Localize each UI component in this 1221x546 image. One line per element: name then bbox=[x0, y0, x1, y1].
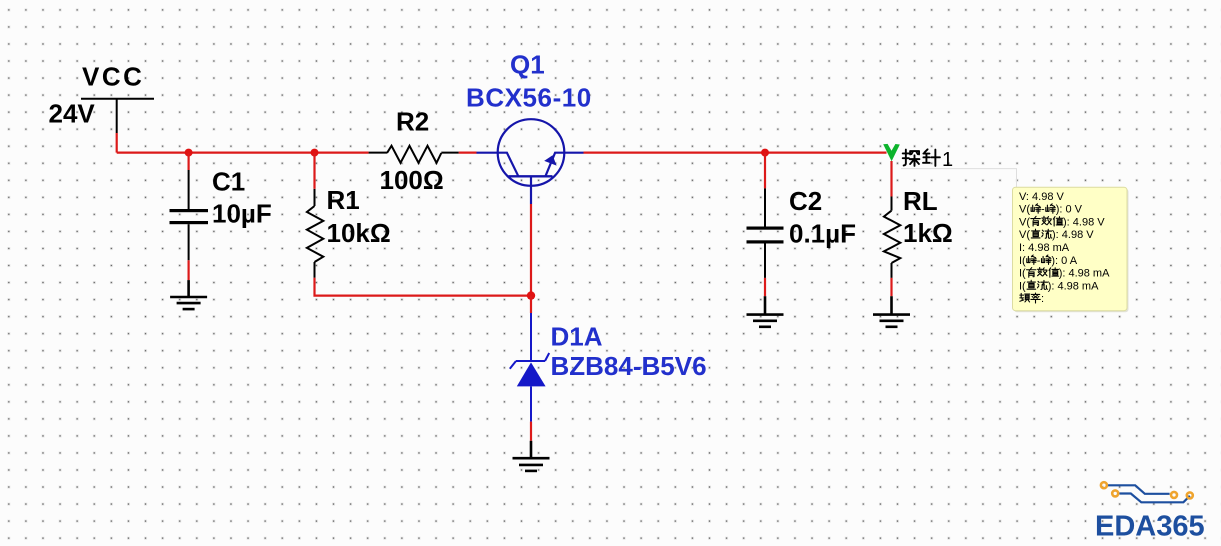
capacitor C2 bbox=[747, 153, 784, 278]
svg-text::: : bbox=[1041, 293, 1044, 305]
zener diode D1A bbox=[510, 313, 549, 422]
svg-text:-: - bbox=[1037, 255, 1041, 267]
svg-text:100Ω: 100Ω bbox=[380, 165, 444, 195]
svg-text:1kΩ: 1kΩ bbox=[903, 218, 953, 248]
transistor Q1 (NPN BCX56-10) bbox=[477, 119, 584, 204]
svg-text:): 0 A: ): 0 A bbox=[1051, 255, 1077, 267]
ground (RL) bbox=[873, 296, 910, 327]
wire VCC drop to rail bbox=[116, 133, 118, 153]
probe label 探针1 bbox=[903, 149, 940, 166]
svg-text:1: 1 bbox=[942, 149, 953, 171]
RL top wire stub bbox=[890, 161, 892, 197]
svg-text:EDA365: EDA365 bbox=[1095, 511, 1205, 543]
junction node C2/rail bbox=[761, 149, 769, 157]
svg-text:0.1µF: 0.1µF bbox=[789, 219, 856, 249]
wire C1 to ground bbox=[188, 260, 190, 280]
svg-text:): 0 V: ): 0 V bbox=[1056, 204, 1083, 216]
EDA365 logo traces bbox=[1108, 485, 1190, 502]
svg-text:BCX56-10: BCX56-10 bbox=[466, 83, 592, 113]
svg-text:V: 4.98 V: V: 4.98 V bbox=[1019, 191, 1065, 203]
R1 top wire stub bbox=[313, 153, 315, 189]
wire zener to ground bbox=[530, 422, 532, 441]
svg-text:): 4.98 V: ): 4.98 V bbox=[1052, 229, 1094, 241]
svg-text:10kΩ: 10kΩ bbox=[327, 218, 391, 248]
Q1 emitter arrow bbox=[544, 155, 556, 165]
ground (D1A) bbox=[513, 441, 550, 471]
svg-text:I(: I( bbox=[1019, 255, 1026, 267]
resistor RL bbox=[884, 197, 900, 278]
svg-text:10µF: 10µF bbox=[212, 199, 272, 229]
svg-text:24V: 24V bbox=[49, 98, 96, 128]
ground (C1) bbox=[170, 280, 207, 309]
svg-text:I(: I( bbox=[1019, 280, 1026, 292]
D1A triangle bbox=[517, 362, 546, 386]
capacitor C1 bbox=[170, 153, 209, 261]
svg-text:C1: C1 bbox=[212, 167, 245, 197]
svg-text:BZB84-B5V6: BZB84-B5V6 bbox=[551, 351, 707, 381]
svg-text:): 4.98 V: ): 4.98 V bbox=[1063, 216, 1105, 228]
wire node to zener bbox=[530, 296, 532, 313]
wire Q1 base to node bbox=[530, 204, 532, 296]
info line frequency bbox=[1020, 293, 1040, 303]
svg-text:V(: V( bbox=[1019, 216, 1030, 228]
svg-text:C2: C2 bbox=[789, 186, 822, 216]
svg-text:V(: V( bbox=[1019, 204, 1030, 216]
wire C2 to ground bbox=[764, 278, 766, 296]
svg-text:I(: I( bbox=[1019, 268, 1026, 280]
svg-text:-: - bbox=[1041, 204, 1045, 216]
wire top rail left (VCC to R2) bbox=[117, 152, 369, 154]
EDA365 logo pads bbox=[1101, 482, 1193, 498]
leader line to info box bbox=[901, 169, 1017, 188]
VCC power symbol bbox=[81, 99, 154, 133]
svg-text:): 4.98 mA: ): 4.98 mA bbox=[1059, 268, 1110, 280]
resistor R2 bbox=[369, 146, 459, 163]
svg-text:I: 4.98 mA: I: 4.98 mA bbox=[1019, 242, 1070, 254]
svg-text:): 4.98 mA: ): 4.98 mA bbox=[1048, 280, 1099, 292]
probe marker (green) bbox=[883, 144, 900, 161]
junction node R1/rail bbox=[311, 149, 319, 157]
svg-text:RL: RL bbox=[903, 186, 938, 216]
junction node C1/rail bbox=[185, 149, 193, 157]
svg-text:V(: V( bbox=[1019, 229, 1030, 241]
svg-text:R1: R1 bbox=[327, 185, 360, 215]
svg-text:D1A: D1A bbox=[551, 322, 603, 352]
svg-text:R2: R2 bbox=[396, 107, 429, 137]
wire RL to ground bbox=[890, 278, 892, 296]
wire R1 bottom to base node bbox=[315, 278, 532, 296]
wire Q1 emitter to probe bbox=[584, 152, 887, 154]
ground (C2) bbox=[747, 296, 784, 327]
junction node base/zener bbox=[527, 291, 535, 299]
svg-text:Q1: Q1 bbox=[510, 50, 545, 80]
probe info box bbox=[1014, 189, 1129, 313]
wire R2 to Q1 collector bbox=[459, 152, 477, 154]
resistor R1 bbox=[307, 189, 323, 278]
svg-text:VCC: VCC bbox=[82, 62, 144, 92]
